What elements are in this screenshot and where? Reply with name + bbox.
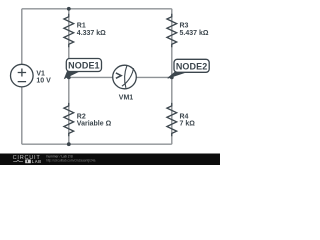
svg-text:10 V: 10 V — [36, 77, 51, 84]
wire left rail lower (V1 bottom to bottom rail) — [21, 87, 23, 144]
wire top rail — [22, 8, 172, 10]
svg-text:NODE2: NODE2 — [176, 61, 208, 71]
wire R2 column — [68, 77, 70, 144]
node flag NODE1 box — [66, 59, 101, 72]
wire R4 column — [171, 77, 173, 144]
junction dot node B (NODE2) — [170, 76, 174, 80]
wire middle right (VM1 to NODE2) — [136, 76, 172, 78]
junction dot bottom (R2/bottom rail) — [67, 142, 71, 146]
svg-text:7 kΩ: 7 kΩ — [180, 121, 196, 128]
svg-text:R2: R2 — [77, 113, 86, 120]
watermark bar — [0, 154, 220, 166]
svg-text:LAB: LAB — [32, 159, 42, 164]
node flag NODE2 box — [174, 59, 209, 72]
resistor R3 — [167, 14, 177, 47]
svg-text:http://circuitlab.com/cm2aaant: http://circuitlab.com/cm2aaantjr24a — [46, 159, 96, 163]
resistor R4 — [167, 103, 177, 136]
svg-text:NODE1: NODE1 — [68, 61, 100, 71]
svg-text:R3: R3 — [180, 23, 189, 30]
wire middle left (NODE1 to VM1) — [69, 76, 113, 78]
junction dot node A (NODE1) — [67, 76, 71, 80]
resistor R2 — [64, 103, 74, 136]
svg-text:R4: R4 — [180, 113, 189, 120]
wire R1 column — [68, 9, 70, 78]
voltage source V1 — [10, 64, 33, 87]
svg-text:VM1: VM1 — [119, 95, 134, 102]
svg-text:R1: R1 — [77, 23, 86, 30]
wire R3 column — [171, 9, 173, 78]
svg-text:5.437 kΩ: 5.437 kΩ — [180, 30, 209, 37]
resistor R1 — [64, 14, 74, 47]
node flag NODE2 tail — [168, 72, 185, 78]
voltmeter VM1 — [113, 65, 137, 89]
svg-text:4.337 kΩ: 4.337 kΩ — [77, 30, 106, 37]
wire left rail upper (to V1 top) — [21, 9, 23, 65]
watermark logo waveform + LAB — [13, 160, 23, 162]
junction dot top (R1/top rail) — [67, 7, 71, 11]
svg-text:V1: V1 — [36, 70, 45, 77]
wire bottom rail — [22, 143, 172, 145]
node flag NODE1 tail — [65, 72, 79, 79]
svg-text:Variable Ω: Variable Ω — [77, 121, 112, 128]
